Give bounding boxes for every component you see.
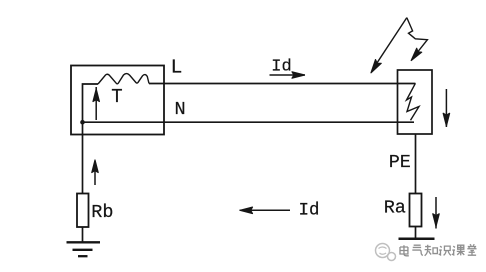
svg-text:PE: PE (389, 152, 411, 173)
ground Rb bar1 (67, 241, 101, 243)
resistor Rb (77, 194, 89, 228)
watermark logo (376, 244, 396, 261)
ground Ra bar (399, 237, 435, 240)
watermark text 电气知识课堂 (drawn as strokes) (400, 244, 477, 255)
char 知 (425, 245, 438, 256)
L wire (149, 83, 415, 85)
resistor Ra (410, 194, 422, 227)
fault lightning inside load (407, 83, 420, 120)
arrow up inside transformer (93, 87, 99, 120)
char 课 (452, 245, 465, 255)
svg-text:Ra: Ra (384, 197, 406, 218)
wire Ra to ground (415, 227, 417, 239)
svg-text:N: N (175, 99, 186, 120)
char 堂 (467, 244, 476, 255)
char 识 (439, 246, 451, 255)
arrow Id top (270, 72, 306, 78)
svg-text:L: L (171, 57, 183, 79)
transformer box (71, 66, 164, 135)
svg-text:Id: Id (271, 58, 291, 77)
junction dot (80, 120, 85, 125)
svg-text:T: T (111, 86, 122, 108)
wire junction to Rb (82, 122, 84, 193)
ground Rb bar3 (78, 255, 88, 257)
arrow Id bottom (240, 207, 291, 213)
svg-text:Id: Id (299, 200, 320, 220)
arrow up beside Rb (92, 160, 98, 185)
load box (398, 70, 433, 134)
char 气 (412, 245, 423, 255)
transformer winding T (98, 74, 149, 84)
PE wire (415, 134, 417, 194)
lightning strike jagged arrow (407, 18, 428, 61)
winding left lead wire (83, 84, 99, 122)
svg-text:Rb: Rb (91, 202, 113, 223)
char 电 (400, 245, 409, 256)
wire Rb to ground (82, 227, 84, 242)
arrow down right of load (443, 89, 449, 127)
arrow down beside Ra (433, 197, 439, 229)
lightning strike long arrow (371, 18, 407, 73)
ground Rb bar2 (73, 249, 93, 251)
N wire (83, 121, 415, 123)
